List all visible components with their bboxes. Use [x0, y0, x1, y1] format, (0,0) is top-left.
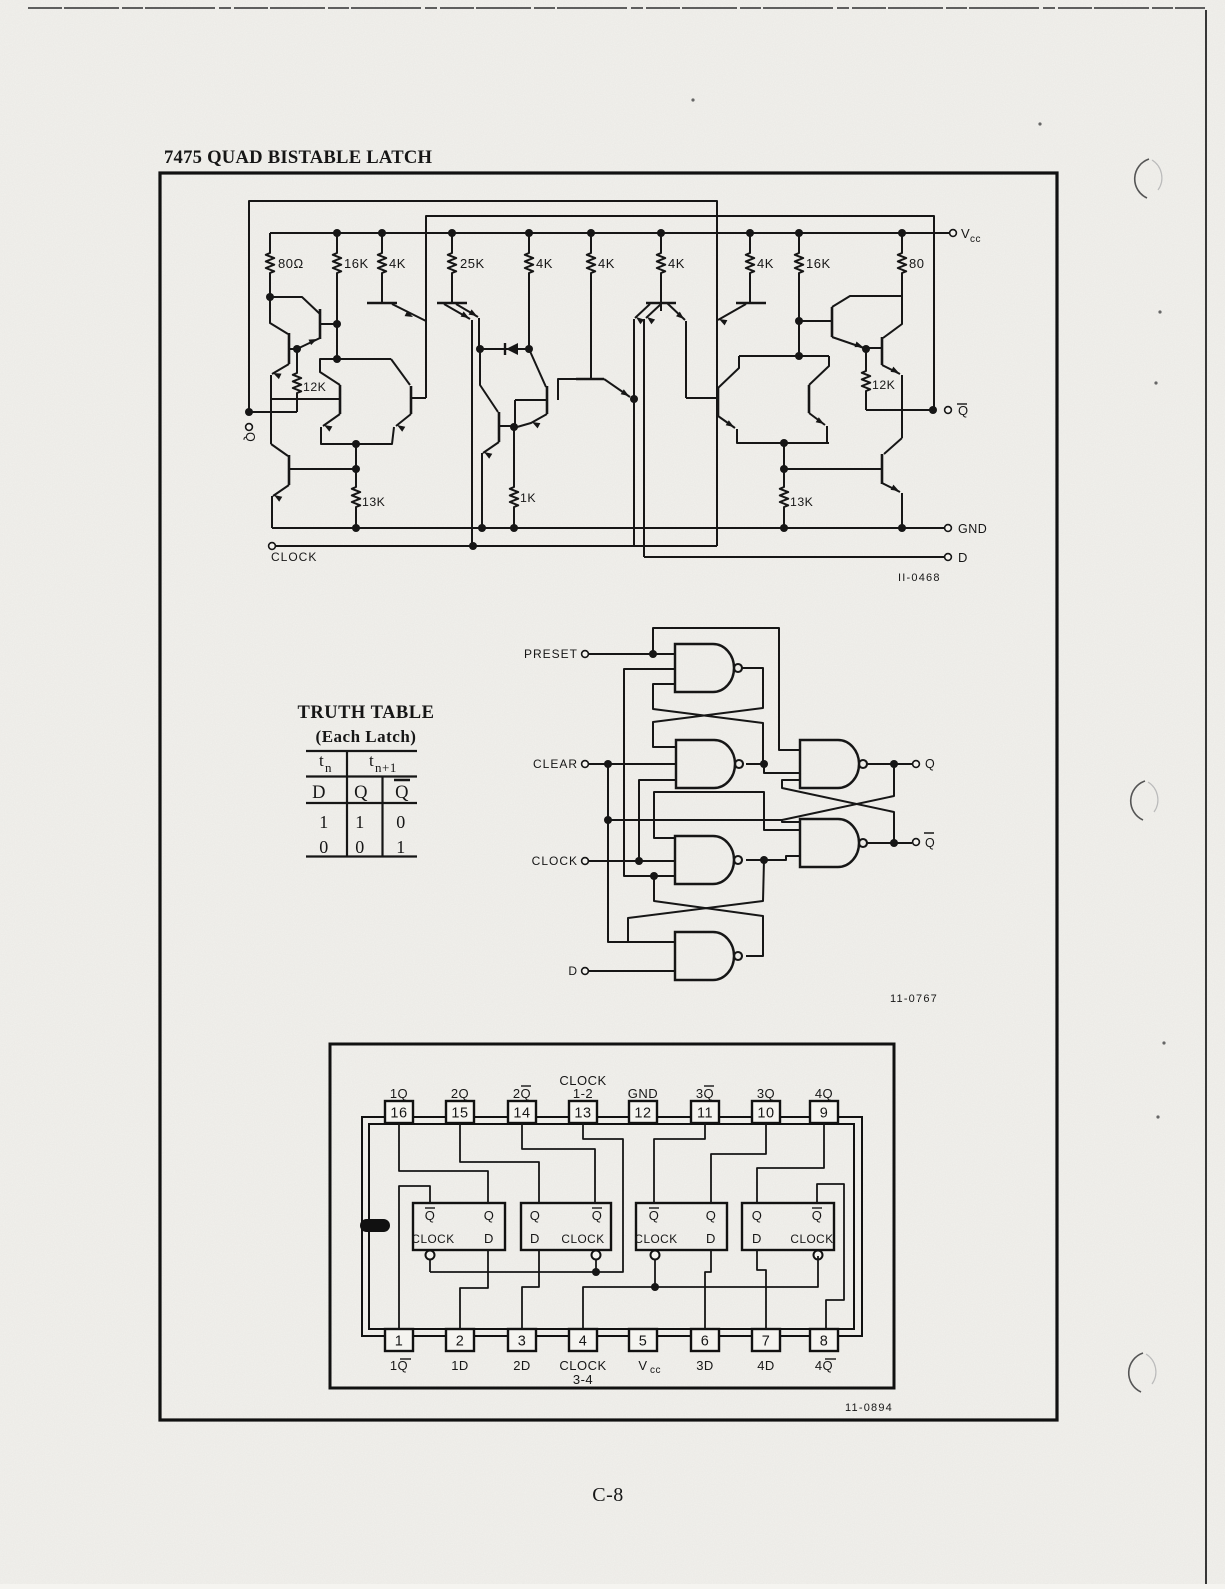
svg-text:6: 6	[701, 1334, 710, 1350]
svg-text:GND: GND	[628, 1086, 658, 1101]
svg-text:25K: 25K	[460, 256, 485, 271]
svg-text:11-0894: 11-0894	[845, 1402, 893, 1414]
svg-text:V: V	[961, 226, 970, 241]
svg-text:4: 4	[579, 1334, 588, 1350]
svg-text:0: 0	[396, 812, 406, 832]
svg-text:C-8: C-8	[592, 1484, 624, 1506]
svg-text:8: 8	[820, 1334, 829, 1350]
svg-text:CLOCK: CLOCK	[634, 1232, 677, 1246]
svg-text:D: D	[706, 1231, 716, 1246]
svg-text:4K: 4K	[598, 256, 615, 271]
svg-text:2Q: 2Q	[513, 1086, 531, 1101]
svg-text:13: 13	[574, 1106, 591, 1122]
svg-text:13K: 13K	[362, 495, 386, 509]
svg-text:t: t	[369, 751, 374, 770]
svg-text:GND: GND	[958, 522, 987, 536]
svg-text:4Q: 4Q	[815, 1358, 833, 1373]
svg-text:Q: Q	[925, 836, 935, 850]
svg-text:n: n	[325, 760, 332, 775]
svg-text:0: 0	[355, 837, 365, 857]
svg-text:CLOCK: CLOCK	[532, 854, 578, 868]
svg-text:1-2: 1-2	[573, 1086, 593, 1101]
svg-text:II-0468: II-0468	[898, 572, 941, 584]
svg-text:Q: Q	[649, 1208, 660, 1223]
svg-text:Q: Q	[243, 432, 257, 442]
svg-text:13K: 13K	[790, 495, 814, 509]
svg-text:4K: 4K	[389, 256, 406, 271]
svg-text:3Q: 3Q	[757, 1086, 775, 1101]
svg-text:1Q: 1Q	[390, 1358, 408, 1373]
svg-text:4K: 4K	[757, 256, 774, 271]
svg-text:4K: 4K	[668, 256, 685, 271]
svg-text:16K: 16K	[344, 256, 369, 271]
svg-text:Q: Q	[812, 1208, 823, 1223]
svg-text:cc: cc	[650, 1365, 661, 1376]
svg-text:Q: Q	[752, 1208, 763, 1223]
svg-text:4Q: 4Q	[815, 1086, 833, 1101]
svg-text:TRUTH TABLE: TRUTH TABLE	[298, 703, 435, 723]
svg-text:1: 1	[355, 812, 365, 832]
svg-text:1: 1	[395, 1334, 404, 1350]
svg-text:3: 3	[518, 1334, 527, 1350]
svg-text:Q: Q	[530, 1208, 541, 1223]
svg-text:CLOCK: CLOCK	[561, 1232, 604, 1246]
svg-text:2Q: 2Q	[451, 1086, 469, 1101]
svg-text:D: D	[484, 1231, 494, 1246]
svg-text:5: 5	[639, 1334, 648, 1350]
svg-text:V: V	[638, 1358, 647, 1373]
svg-text:12K: 12K	[303, 380, 327, 394]
svg-text:2D: 2D	[513, 1358, 531, 1373]
svg-text:Q: Q	[706, 1208, 717, 1223]
svg-text:80Ω: 80Ω	[278, 256, 304, 271]
svg-text:Q: Q	[592, 1208, 603, 1223]
svg-text:1: 1	[319, 812, 329, 832]
svg-text:t: t	[319, 751, 324, 770]
svg-text:12K: 12K	[872, 378, 896, 392]
svg-text:1Q: 1Q	[390, 1086, 408, 1101]
svg-text:1: 1	[396, 837, 406, 857]
svg-text:12: 12	[634, 1106, 651, 1122]
svg-text:CLOCK: CLOCK	[559, 1358, 606, 1373]
svg-text:Q: Q	[958, 403, 969, 418]
svg-text:CLEAR: CLEAR	[533, 757, 578, 771]
svg-text:1D: 1D	[451, 1358, 469, 1373]
svg-text:Q: Q	[925, 757, 935, 771]
svg-text:15: 15	[451, 1106, 468, 1122]
svg-text:n+1: n+1	[375, 760, 397, 775]
svg-text:10: 10	[757, 1106, 774, 1122]
svg-text:4K: 4K	[536, 256, 553, 271]
svg-text:9: 9	[820, 1106, 829, 1122]
svg-text:CLOCK: CLOCK	[790, 1232, 833, 1246]
svg-text:0: 0	[319, 837, 329, 857]
svg-text:1K: 1K	[520, 491, 536, 505]
svg-text:3-4: 3-4	[573, 1372, 593, 1387]
svg-text:CLOCK: CLOCK	[271, 550, 317, 564]
svg-text:D: D	[752, 1231, 762, 1246]
svg-text:Q: Q	[484, 1208, 495, 1223]
svg-text:3Q: 3Q	[696, 1086, 714, 1101]
svg-text:Q: Q	[354, 783, 368, 803]
svg-text:11: 11	[697, 1106, 713, 1122]
svg-text:(Each Latch): (Each Latch)	[316, 727, 417, 746]
svg-text:7: 7	[762, 1334, 771, 1350]
svg-text:16: 16	[390, 1106, 407, 1122]
svg-text:7475 QUAD BISTABLE LATCH: 7475 QUAD BISTABLE LATCH	[164, 147, 433, 168]
svg-text:2: 2	[456, 1334, 465, 1350]
svg-text:D: D	[530, 1231, 540, 1246]
svg-text:D: D	[958, 550, 968, 565]
svg-text:cc: cc	[970, 234, 981, 245]
svg-text:PRESET: PRESET	[524, 647, 578, 661]
svg-text:80: 80	[909, 256, 924, 271]
svg-text:CLOCK: CLOCK	[411, 1232, 454, 1246]
svg-text:11-0767: 11-0767	[890, 993, 938, 1005]
svg-text:14: 14	[513, 1106, 530, 1122]
svg-text:4D: 4D	[757, 1358, 775, 1373]
svg-text:Q: Q	[425, 1208, 436, 1223]
svg-text:D: D	[312, 783, 326, 803]
svg-text:Q: Q	[395, 783, 409, 803]
svg-text:3D: 3D	[696, 1358, 714, 1373]
svg-text:16K: 16K	[806, 256, 831, 271]
svg-text:D: D	[568, 964, 578, 978]
